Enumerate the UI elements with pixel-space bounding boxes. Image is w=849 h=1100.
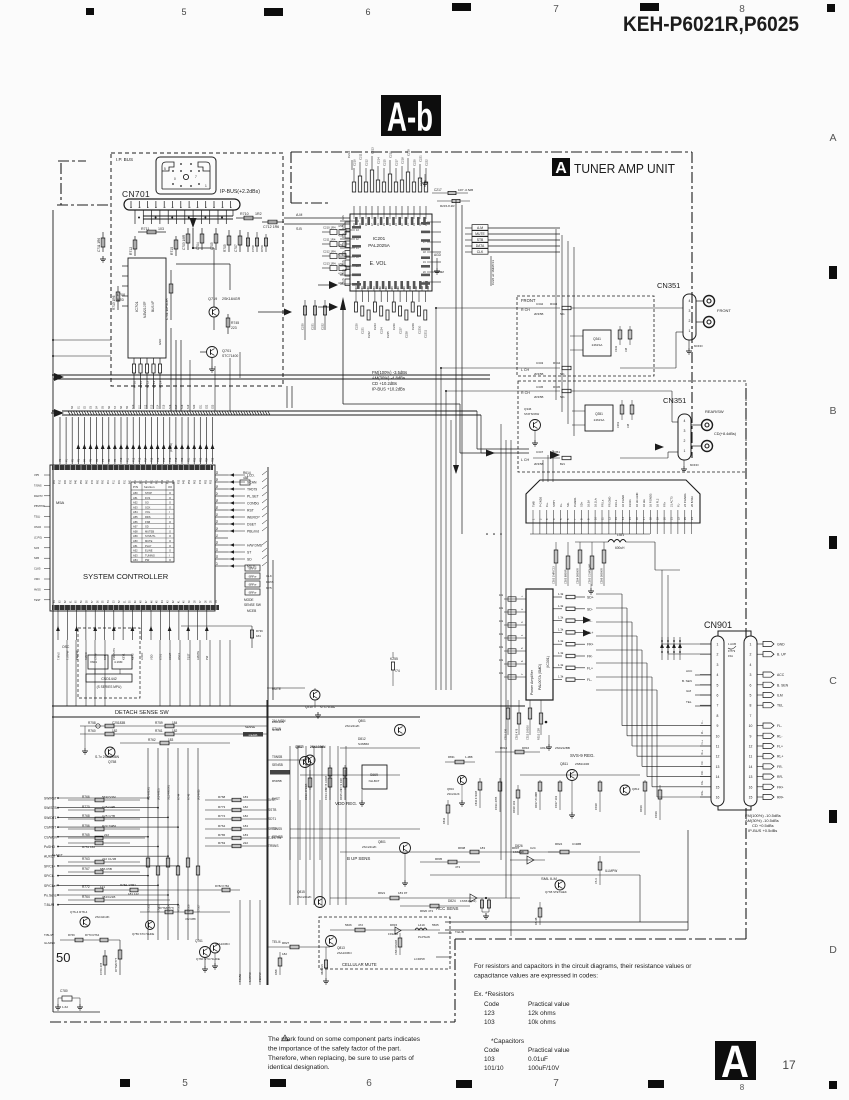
svg-text:6: 6 bbox=[717, 694, 719, 698]
svg-text:SW/RST: SW/RST bbox=[44, 797, 57, 801]
svg-text:S10: S10 bbox=[132, 404, 135, 409]
svg-text:Q810: Q810 bbox=[296, 745, 304, 749]
svg-text:C705: C705 bbox=[210, 242, 214, 250]
svg-text:C225: C225 bbox=[386, 331, 390, 338]
svg-text:Q346: Q346 bbox=[524, 407, 532, 411]
svg-text:1: 1 bbox=[717, 643, 719, 647]
svg-text:222: 222 bbox=[104, 833, 109, 837]
svg-text:61: 61 bbox=[70, 600, 72, 603]
svg-text:C7106: C7106 bbox=[187, 904, 190, 912]
connector CN302 pin bbox=[580, 510, 582, 523]
svg-text:54: 54 bbox=[108, 600, 110, 603]
svg-text:C813 471/1B: C813 471/1B bbox=[304, 784, 308, 800]
svg-text:24: 24 bbox=[690, 517, 694, 520]
svg-text:Code: Code bbox=[484, 1047, 500, 1054]
svg-text:O: O bbox=[169, 534, 171, 538]
svg-text:FL+: FL+ bbox=[545, 502, 549, 507]
svg-text:FSB: FSB bbox=[145, 520, 150, 524]
svg-text:R756: R756 bbox=[82, 824, 90, 828]
svg-text:SENSE: SENSE bbox=[245, 725, 255, 729]
svg-text:C707: C707 bbox=[234, 244, 238, 252]
svg-text:21: 21 bbox=[669, 517, 673, 520]
wire bundle center vertical bbox=[435, 308, 437, 690]
svg-text:P31: P31 bbox=[124, 479, 126, 484]
svg-text:C234: C234 bbox=[347, 150, 351, 158]
svg-text:IC701: IC701 bbox=[134, 301, 139, 312]
svg-text:P81: P81 bbox=[151, 479, 153, 484]
svg-text:FRONT: FRONT bbox=[717, 308, 731, 313]
svg-text:45: 45 bbox=[157, 600, 159, 603]
svg-text:KEH-P6021R,P6025: KEH-P6021R,P6025 bbox=[623, 13, 799, 36]
svg-text:24 P.GNDA: 24 P.GNDA bbox=[683, 493, 687, 507]
wire CN701 pin drop bbox=[159, 210, 161, 224]
svg-text:P50: P50 bbox=[81, 479, 83, 484]
svg-text:C25 C/4B: C25 C/4B bbox=[102, 805, 115, 809]
ground C780 left bbox=[57, 998, 59, 1004]
svg-text:R746: R746 bbox=[186, 793, 190, 800]
svg-text:I.P. BUS: I.P. BUS bbox=[116, 157, 133, 162]
svg-text:S14: S14 bbox=[157, 404, 160, 409]
svg-text:15: 15 bbox=[749, 796, 753, 800]
svg-text:3: 3 bbox=[689, 309, 691, 313]
svg-text:R751 162: R751 162 bbox=[82, 845, 95, 849]
svg-text:SP/CL+: SP/CL+ bbox=[44, 864, 56, 868]
connector CN302 pin bbox=[677, 510, 679, 523]
svg-text:46: 46 bbox=[151, 600, 153, 603]
svg-text:P10: P10 bbox=[60, 479, 62, 484]
wire CN701 pin drop bbox=[217, 210, 219, 224]
main unit boundary horizontal bottom bbox=[50, 1021, 455, 1023]
svg-text:Q761: Q761 bbox=[195, 939, 203, 943]
resistor R712 bbox=[134, 236, 136, 256]
wire trunk junction dots bbox=[52, 339, 54, 341]
svg-text:9: 9 bbox=[717, 724, 719, 728]
svg-text:TR5NS: TR5NS bbox=[268, 844, 278, 848]
svg-text:C227: C227 bbox=[398, 327, 402, 334]
capacitor C62x pair bbox=[94, 669, 96, 674]
svg-text:1: 1 bbox=[684, 449, 686, 453]
wire trunk to IP-BUS block row2 bbox=[53, 355, 111, 357]
svg-text:C210: C210 bbox=[352, 159, 356, 166]
wire bus top-left to amp bbox=[56, 378, 58, 383]
svg-text:Practical value: Practical value bbox=[528, 1047, 570, 1054]
wire rows detach to channel bbox=[230, 725, 267, 727]
svg-text:FL-: FL- bbox=[676, 503, 680, 507]
svg-text:P22: P22 bbox=[193, 457, 196, 462]
svg-text:R710: R710 bbox=[132, 380, 136, 388]
svg-text:C7107: C7107 bbox=[197, 904, 200, 912]
IC IC301 power amplifier bbox=[526, 589, 553, 700]
svg-text:S(L24MBS0): S(L24MBS0) bbox=[166, 785, 170, 800]
svg-text:53: 53 bbox=[216, 520, 219, 523]
svg-text:P70: P70 bbox=[92, 479, 94, 484]
svg-text:capacitance values are express: capacitance values are expressed in code… bbox=[474, 973, 598, 980]
svg-text:2: 2 bbox=[684, 439, 686, 443]
svg-text:function: function bbox=[144, 485, 155, 489]
svg-text:R710: R710 bbox=[240, 212, 249, 216]
signal arrow up at IC201 exit bbox=[340, 297, 346, 310]
ground cap bank bbox=[590, 588, 592, 591]
svg-text:STAIN: STAIN bbox=[272, 728, 281, 732]
wire right channel vertical 2 bbox=[272, 560, 274, 700]
wire IC701 bottom pin bbox=[133, 358, 135, 364]
wire CN901 upper feeds bbox=[661, 637, 663, 660]
signal arrow L CH bbox=[486, 450, 495, 457]
connector CN302 pin bbox=[567, 510, 569, 523]
signal arrow into IC201 bottom-left bbox=[329, 281, 338, 289]
capacitor C813 bbox=[309, 770, 311, 800]
connector CN302 pin bbox=[594, 510, 596, 523]
svg-text:T.STPW: T.STPW bbox=[66, 650, 70, 660]
svg-text:P17: P17 bbox=[163, 457, 166, 462]
connector CN302 pin bbox=[649, 510, 651, 523]
svg-text:A.M: A.M bbox=[477, 226, 483, 230]
svg-text:17: 17 bbox=[782, 1058, 796, 1072]
svg-text:C306 56000R: C306 56000R bbox=[599, 568, 603, 584]
ground Q701 bbox=[211, 358, 213, 366]
svg-text:BUS I/F: BUS I/F bbox=[151, 301, 155, 312]
main unit boundary vertical notes bbox=[454, 939, 456, 1022]
wire drops bus to MCU with arrows bbox=[59, 417, 61, 464]
svg-text:CELLULAR MUTE: CELLULAR MUTE bbox=[342, 962, 377, 967]
svg-text:4: 4 bbox=[521, 634, 524, 636]
svg-text:26 B.50A: 26 B.50A bbox=[690, 496, 694, 507]
wire column x215 to bus bbox=[214, 366, 216, 411]
svg-text:SD-: SD- bbox=[587, 607, 593, 611]
connector CN302 pin bbox=[615, 510, 617, 523]
svg-text:OSC1: OSC1 bbox=[177, 652, 181, 660]
svg-text:11: 11 bbox=[716, 745, 720, 749]
svg-text:101/10: 101/10 bbox=[484, 1065, 504, 1072]
svg-text:472 R88: 472 R88 bbox=[185, 917, 196, 921]
resistor R826 bbox=[330, 929, 440, 931]
svg-text:ILLMCT: ILLMCT bbox=[52, 853, 63, 857]
resistor R715 bbox=[175, 236, 177, 256]
svg-text:2SA1036N: 2SA1036N bbox=[310, 745, 326, 749]
svg-text:183: 183 bbox=[168, 738, 174, 742]
svg-text:P90: P90 bbox=[103, 479, 105, 484]
connector CN302 pin bbox=[539, 510, 541, 523]
svg-text:3: 3 bbox=[545, 518, 549, 520]
svg-text:C226: C226 bbox=[392, 323, 396, 330]
svg-text:C213 1R4: C213 1R4 bbox=[323, 262, 336, 266]
svg-text:H/W DMS: H/W DMS bbox=[247, 544, 263, 548]
svg-text:25: 25 bbox=[383, 223, 386, 226]
svg-text:53: 53 bbox=[114, 600, 116, 603]
svg-text:FR+: FR+ bbox=[777, 785, 784, 789]
svg-text:2461SA: 2461SA bbox=[592, 343, 603, 347]
svg-text:11: 11 bbox=[415, 286, 418, 289]
svg-text:IP-BUS +10.2dBs: IP-BUS +10.2dBs bbox=[372, 387, 405, 392]
ground AGND top bbox=[424, 180, 426, 183]
svg-text:5: 5 bbox=[181, 7, 186, 17]
resistor R751 row bbox=[68, 842, 130, 844]
svg-text:O: O bbox=[169, 544, 171, 548]
svg-text:SD+: SD+ bbox=[580, 501, 584, 507]
svg-text:C220: C220 bbox=[412, 159, 416, 166]
FRONT output dashed enclosure bbox=[517, 296, 654, 376]
wire column x240 to bus bbox=[239, 352, 241, 378]
svg-text:C25183B: C25183B bbox=[112, 721, 125, 725]
svg-text:1.3k: 1.3k bbox=[558, 616, 564, 620]
svg-text:C223: C223 bbox=[373, 323, 377, 330]
svg-text:58: 58 bbox=[216, 485, 219, 488]
svg-text:60: 60 bbox=[76, 600, 78, 603]
connector CN302 pin bbox=[553, 510, 555, 523]
svg-text:37: 37 bbox=[200, 600, 202, 603]
svg-text:CLK: CLK bbox=[266, 574, 272, 578]
svg-text:R711: R711 bbox=[139, 381, 143, 388]
svg-text:9: 9 bbox=[403, 287, 406, 289]
wire center vertical x501 x506 bbox=[500, 424, 502, 860]
svg-text:43: 43 bbox=[356, 229, 359, 232]
IC CSD1442 label bbox=[86, 674, 132, 682]
junction dots CN701 bus bbox=[138, 217, 140, 219]
svg-text:Q210: Q210 bbox=[305, 705, 313, 709]
svg-text:123: 123 bbox=[484, 1010, 495, 1017]
svg-text:DEMB: DEMB bbox=[249, 733, 258, 737]
svg-text:14: 14 bbox=[716, 775, 720, 779]
svg-text:A-b: A-b bbox=[387, 94, 433, 140]
svg-text:The mark found on some co: The mark found on some component parts i… bbox=[268, 1036, 421, 1043]
svg-text:TEL/4: TEL/4 bbox=[272, 940, 281, 944]
svg-text:121: 121 bbox=[100, 885, 105, 889]
svg-text:S7: S7 bbox=[114, 405, 117, 409]
ground ACC sense bbox=[485, 913, 487, 916]
svg-text:RST: RST bbox=[247, 509, 254, 513]
svg-text:5: 5 bbox=[717, 683, 719, 687]
svg-text:5505: 5505 bbox=[432, 923, 439, 927]
bus left arrow bbox=[54, 409, 64, 417]
svg-text:183: 183 bbox=[480, 846, 485, 850]
svg-text:GND: GND bbox=[158, 339, 162, 345]
svg-text:R739: R739 bbox=[256, 629, 263, 633]
connector CN302 pin bbox=[656, 510, 658, 523]
svg-text:-SRFw: -SRFw bbox=[248, 583, 258, 587]
svg-text:A54: A54 bbox=[133, 558, 138, 562]
svg-text:103: 103 bbox=[484, 1019, 495, 1026]
svg-text:R715: R715 bbox=[170, 247, 174, 255]
svg-text:S9: S9 bbox=[126, 405, 129, 409]
capacitor C814 bbox=[329, 770, 331, 800]
svg-text:13: 13 bbox=[716, 765, 720, 769]
svg-text:O: O bbox=[169, 529, 171, 533]
svg-text:S22: S22 bbox=[205, 404, 208, 409]
svg-text:A52: A52 bbox=[133, 501, 138, 505]
svg-text:PBL/md: PBL/md bbox=[247, 530, 259, 534]
svg-text:12: 12 bbox=[421, 286, 424, 289]
svg-text:R767: R767 bbox=[82, 867, 90, 871]
svg-text:P8: P8 bbox=[108, 458, 111, 462]
svg-text:3: 3 bbox=[750, 673, 752, 677]
svg-text:40: 40 bbox=[184, 600, 186, 603]
resistor R766 row bbox=[68, 799, 140, 801]
svg-text:C771 R18: C771 R18 bbox=[339, 778, 343, 790]
ground CN351 front bbox=[688, 340, 690, 348]
resistor R762 row bbox=[120, 742, 230, 744]
svg-text:1: 1 bbox=[521, 595, 524, 597]
svg-text:D824: D824 bbox=[448, 899, 456, 903]
svg-text:SC5: SC5 bbox=[34, 546, 40, 550]
svg-text:C817 103: C817 103 bbox=[554, 795, 558, 808]
svg-text:15: 15 bbox=[716, 785, 720, 789]
svg-text:7: 7 bbox=[573, 518, 577, 520]
connector CN302 pin bbox=[560, 510, 562, 523]
svg-text:472: 472 bbox=[358, 923, 363, 927]
svg-text:O: O bbox=[169, 496, 171, 500]
svg-text:O: O bbox=[169, 539, 171, 543]
capacitor C711 bbox=[102, 232, 104, 252]
svg-text:OSC: OSC bbox=[62, 645, 70, 649]
svg-text:R315 C5R: R315 C5R bbox=[536, 728, 540, 740]
svg-text:501: 501 bbox=[560, 395, 565, 399]
svg-text:50: 50 bbox=[56, 950, 70, 965]
svg-text:C302 476: C302 476 bbox=[514, 728, 518, 740]
IC201 inside pin names top bbox=[355, 217, 426, 225]
wire CN701 pin drop bbox=[142, 210, 144, 224]
wire IC701 bottom pin bbox=[140, 358, 142, 364]
resistor R819 bbox=[643, 782, 647, 791]
svg-text:20: 20 bbox=[663, 517, 667, 520]
svg-text:R765: R765 bbox=[82, 833, 90, 837]
svg-text:FR-: FR- bbox=[777, 765, 783, 769]
svg-text:R779/R777: R779/R777 bbox=[114, 957, 118, 972]
svg-text:FR-: FR- bbox=[587, 655, 593, 659]
svg-text:R23 7/4B2: R23 7/4B2 bbox=[102, 824, 117, 828]
svg-text:16 P.GND3: 16 P.GND3 bbox=[649, 493, 653, 507]
svg-text:54: 54 bbox=[216, 513, 219, 516]
svg-text:P40: P40 bbox=[76, 479, 78, 484]
svg-text:S21: S21 bbox=[199, 404, 202, 409]
svg-text:SYMUTL: SYMUTL bbox=[145, 534, 156, 538]
wire CN701 pin drop bbox=[200, 210, 202, 224]
svg-text:182: 182 bbox=[243, 814, 248, 818]
svg-text:1.3k: 1.3k bbox=[558, 639, 564, 643]
svg-text:501: 501 bbox=[560, 312, 565, 316]
svg-text:C769 478: C769 478 bbox=[99, 962, 103, 975]
transistor Q767 bbox=[305, 755, 315, 765]
svg-text:LCDO: LCDO bbox=[140, 653, 144, 660]
svg-text:A57: A57 bbox=[133, 525, 138, 529]
svg-text:MONO: MONO bbox=[694, 344, 704, 348]
svg-text:P21: P21 bbox=[187, 457, 190, 462]
svg-text:473: 473 bbox=[455, 865, 460, 869]
svg-text:7: 7 bbox=[553, 4, 559, 15]
svg-text:58: 58 bbox=[87, 600, 89, 603]
svg-text:3: 3 bbox=[717, 663, 719, 667]
svg-text:36: 36 bbox=[205, 600, 207, 603]
svg-text:16 HG: 16 HG bbox=[642, 499, 646, 507]
ground B UP bbox=[404, 880, 406, 883]
svg-text:C211 1R4: C211 1R4 bbox=[323, 238, 336, 242]
svg-text:0.01uF: 0.01uF bbox=[528, 1056, 548, 1063]
IC Q351 rear driver bbox=[585, 405, 613, 431]
wire vertical channel x267 bbox=[266, 700, 268, 985]
svg-text:Q811: Q811 bbox=[560, 762, 568, 766]
svg-text:16: 16 bbox=[749, 785, 753, 789]
svg-text:B UP SENS: B UP SENS bbox=[347, 856, 370, 861]
svg-text:13: 13 bbox=[614, 517, 618, 520]
svg-text:56: 56 bbox=[216, 499, 219, 502]
svg-text:PAL007A (SMD): PAL007A (SMD) bbox=[538, 664, 542, 690]
svg-text:IC201: IC201 bbox=[373, 236, 386, 241]
svg-text:R768: R768 bbox=[218, 795, 226, 799]
svg-text:(R24M85): (R24M85) bbox=[156, 788, 160, 800]
svg-text:Q760 STC71HDE: Q760 STC71HDE bbox=[196, 957, 220, 961]
svg-text:4M: 4M bbox=[440, 270, 445, 274]
svg-text:1: 1 bbox=[205, 184, 207, 188]
resistor array below IC701 bbox=[132, 364, 135, 373]
svg-text:C701 1uF/6.3R: C701 1uF/6.3R bbox=[165, 298, 169, 320]
svg-text:P12: P12 bbox=[132, 457, 135, 462]
svg-text:C704: C704 bbox=[196, 242, 200, 250]
svg-text:100uF/10V: 100uF/10V bbox=[528, 1065, 560, 1072]
svg-text:RDS: RDS bbox=[145, 515, 151, 519]
svg-text:9: 9 bbox=[750, 734, 752, 738]
wire IC701 bottom pin bbox=[146, 358, 148, 364]
svg-text:C210 1R4: C210 1R4 bbox=[323, 226, 336, 230]
svg-text:O: O bbox=[169, 505, 171, 509]
svg-text:VDD REG.: VDD REG. bbox=[335, 801, 357, 806]
tuner amp unit boundary right bbox=[691, 152, 693, 458]
svg-text:TMB: TMB bbox=[531, 501, 535, 507]
svg-text:1.3k: 1.3k bbox=[558, 651, 564, 655]
resistor R713 bbox=[117, 286, 119, 310]
svg-text:WERCP: WERCP bbox=[247, 516, 260, 520]
svg-text:R819: R819 bbox=[639, 805, 643, 812]
svg-text:A58: A58 bbox=[133, 529, 138, 533]
svg-text:AGND: AGND bbox=[419, 178, 423, 186]
svg-text:/74: /74 bbox=[395, 669, 400, 673]
svg-text:5VST: 5VST bbox=[272, 797, 280, 801]
svg-text:P25: P25 bbox=[212, 457, 215, 462]
svg-text:S20: S20 bbox=[193, 404, 196, 409]
svg-text:P20: P20 bbox=[181, 457, 184, 462]
wire MCU bottom to detach bbox=[66, 640, 68, 706]
svg-text:DATA: DATA bbox=[476, 244, 485, 248]
svg-text:L351: L351 bbox=[617, 533, 624, 537]
svg-text:R5-4B: R5-4B bbox=[534, 917, 538, 925]
svg-text:C232: C232 bbox=[320, 323, 324, 330]
main unit boundary corner top-left vertical bbox=[60, 163, 62, 205]
capacitor C341 pair bbox=[618, 330, 622, 339]
svg-text:R818 103: R818 103 bbox=[512, 800, 516, 813]
svg-text:SD+: SD+ bbox=[587, 596, 594, 600]
sheet marker A box bottom bbox=[715, 1041, 756, 1080]
svg-text:A: A bbox=[721, 1036, 749, 1087]
svg-text:P02: P02 bbox=[162, 479, 164, 484]
svg-text:R827: R827 bbox=[282, 941, 290, 945]
svg-text:Power Amplifier: Power Amplifier bbox=[530, 669, 534, 695]
svg-text:5: 5 bbox=[559, 518, 563, 520]
svg-text:C347: C347 bbox=[536, 450, 544, 454]
IC IC201 PAL2025A electronic volume bbox=[350, 214, 432, 291]
svg-text:4.5k: 4.5k bbox=[338, 224, 344, 228]
svg-text:2SC4213K: 2SC4213K bbox=[95, 915, 110, 919]
resistor R745 bbox=[227, 314, 229, 334]
svg-text:39: 39 bbox=[189, 600, 191, 603]
resistor R776 R777 pair bbox=[165, 910, 173, 914]
resistor R829 bbox=[279, 952, 281, 975]
svg-text:15: 15 bbox=[628, 517, 632, 520]
page tick bottom 5/6 bbox=[270, 1079, 286, 1087]
svg-text:1.3k: 1.3k bbox=[558, 675, 564, 679]
svg-text:(C.PG): (C.PG) bbox=[34, 535, 42, 539]
svg-text:C816 4/7B: C816 4/7B bbox=[494, 797, 498, 810]
svg-text:P82: P82 bbox=[205, 479, 207, 484]
svg-text:52: 52 bbox=[119, 600, 121, 603]
capacitor C705 bbox=[215, 228, 217, 250]
